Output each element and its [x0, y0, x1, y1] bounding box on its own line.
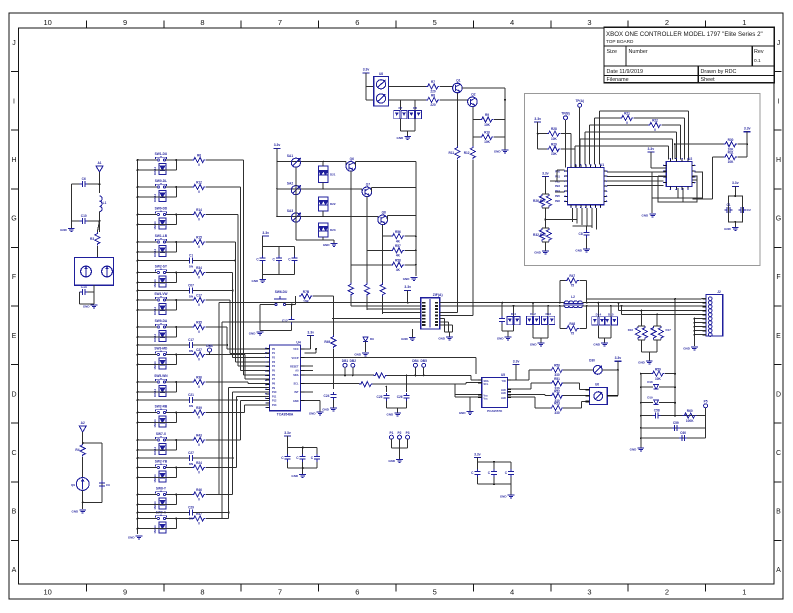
svg-text:3.3v: 3.3v [262, 231, 269, 235]
svg-text:C07: C07 [188, 283, 194, 287]
svg-text:SW2-SY: SW2-SY [155, 265, 168, 269]
svg-text:GND: GND [724, 227, 732, 231]
svg-text:GND: GND [354, 353, 362, 357]
svg-text:J: J [12, 40, 16, 47]
svg-text:75: 75 [571, 332, 575, 336]
svg-text:B: B [12, 509, 17, 516]
svg-text:C6: C6 [82, 177, 86, 181]
svg-text:R60: R60 [687, 409, 693, 413]
svg-text:DB3: DB3 [206, 344, 213, 348]
svg-text:DN: DN [189, 462, 193, 466]
svg-text:A2: A2 [81, 421, 85, 425]
svg-text:GND: GND [401, 337, 409, 341]
svg-text:GND: GND [459, 411, 467, 415]
svg-text:GND: GND [83, 305, 91, 309]
svg-text:Rev: Rev [754, 49, 764, 55]
svg-text:U5: U5 [501, 373, 505, 377]
svg-text:R34: R34 [196, 266, 202, 270]
svg-text:0: 0 [198, 416, 200, 420]
svg-text:1: 1 [742, 18, 746, 27]
svg-text:SDA: SDA [293, 374, 298, 377]
svg-text:R30: R30 [728, 138, 734, 142]
svg-text:SW0-DD: SW0-DD [155, 207, 168, 211]
svg-text:P2: P2 [398, 431, 402, 435]
svg-text:R35: R35 [196, 321, 202, 325]
svg-text:GND: GND [494, 150, 502, 154]
svg-text:8: 8 [200, 18, 204, 27]
svg-text:DB4: DB4 [412, 359, 419, 363]
svg-text:F: F [12, 274, 16, 281]
svg-text:0: 0 [198, 245, 200, 249]
svg-text:4K: 4K [396, 268, 401, 272]
svg-text:3.3v: 3.3v [284, 431, 291, 435]
svg-text:C25: C25 [377, 395, 383, 399]
svg-text:100K: 100K [686, 419, 694, 423]
svg-text:1N914: 1N914 [153, 193, 157, 202]
svg-text:E: E [12, 333, 17, 340]
svg-text:4K: 4K [396, 254, 401, 258]
svg-text:3: 3 [587, 18, 591, 27]
svg-text:7: 7 [278, 588, 282, 597]
svg-text:R36: R36 [196, 376, 202, 380]
svg-text:LED: LED [501, 392, 506, 395]
svg-text:C1: C1 [189, 253, 193, 257]
svg-text:GND: GND [534, 251, 542, 255]
svg-text:R8: R8 [431, 93, 435, 97]
svg-text:SA2: SA2 [287, 181, 293, 185]
svg-text:INT: INT [294, 391, 299, 394]
svg-text:R43: R43 [196, 434, 202, 438]
svg-text:C59: C59 [673, 421, 679, 425]
svg-text:SW2-YB: SW2-YB [155, 460, 168, 464]
svg-text:D13: D13 [545, 312, 551, 316]
svg-text:Drawn by RDC: Drawn by RDC [701, 69, 737, 75]
svg-text:GND: GND [128, 536, 136, 540]
svg-text:R59: R59 [655, 367, 661, 371]
svg-text:SW8-Y: SW8-Y [156, 487, 167, 491]
svg-text:R7: R7 [431, 80, 435, 84]
svg-text:PB6: PB6 [555, 199, 561, 203]
svg-text:SW6-DU: SW6-DU [275, 290, 288, 294]
svg-text:1N914: 1N914 [153, 333, 157, 342]
svg-text:C60: C60 [680, 431, 686, 435]
svg-text:0: 0 [198, 163, 200, 167]
svg-text:R46: R46 [196, 488, 202, 492]
svg-text:1N914: 1N914 [153, 525, 157, 534]
svg-text:D30: D30 [589, 359, 595, 363]
svg-text:P1: P1 [389, 431, 393, 435]
svg-text:P12: P12 [272, 400, 277, 403]
svg-text:1N914: 1N914 [153, 419, 157, 428]
svg-text:ZIF(A): ZIF(A) [433, 293, 443, 297]
svg-text:LED: LED [501, 397, 506, 400]
svg-text:3.3v: 3.3v [542, 171, 549, 175]
svg-text:DN: DN [189, 265, 193, 269]
svg-text:TCA9548A: TCA9548A [277, 413, 294, 417]
svg-text:GND: GND [530, 343, 538, 347]
svg-text:R12: R12 [464, 151, 470, 155]
svg-text:Filename: Filename [607, 77, 629, 83]
svg-text:C: C [11, 450, 16, 457]
svg-text:D8: D8 [413, 106, 417, 110]
svg-text:H: H [776, 157, 781, 164]
svg-text:U4: U4 [296, 341, 300, 345]
svg-text:D15: D15 [608, 312, 614, 316]
svg-text:D22: D22 [330, 202, 336, 206]
svg-text:SCL: SCL [484, 383, 489, 386]
svg-text:10: 10 [44, 18, 52, 27]
svg-text:E: E [776, 333, 781, 340]
svg-text:TP(A): TP(A) [575, 99, 584, 103]
svg-text:GND: GND [387, 413, 395, 417]
svg-text:A1: A1 [97, 161, 101, 165]
svg-text:PB3: PB3 [555, 184, 561, 188]
svg-text:1N914: 1N914 [153, 446, 157, 455]
svg-text:C21: C21 [188, 393, 194, 397]
svg-text:PB1: PB1 [555, 174, 561, 178]
svg-text:Q6: Q6 [350, 157, 354, 161]
svg-text:SCL: SCL [294, 383, 299, 386]
svg-text:SW4-VW: SW4-VW [154, 292, 167, 296]
svg-text:J2: J2 [717, 290, 721, 294]
svg-text:C2: C2 [747, 208, 751, 212]
svg-text:GND: GND [438, 336, 446, 340]
svg-text:C26: C26 [397, 395, 403, 399]
svg-text:1N914: 1N914 [153, 388, 157, 397]
svg-text:1: 1 [742, 588, 746, 597]
svg-text:R15: R15 [196, 236, 202, 240]
svg-text:C58: C58 [654, 409, 660, 413]
svg-text:A: A [776, 567, 781, 574]
svg-text:C17: C17 [188, 338, 194, 342]
svg-text:6: 6 [355, 18, 359, 27]
svg-text:A: A [12, 567, 17, 574]
svg-text:R4: R4 [75, 448, 79, 452]
svg-text:B: B [776, 509, 781, 516]
svg-text:DB2: DB2 [350, 359, 357, 363]
svg-text:R32: R32 [533, 233, 539, 237]
svg-text:D7: D7 [398, 106, 402, 110]
svg-text:R57: R57 [395, 244, 401, 248]
svg-text:R9: R9 [485, 113, 489, 117]
svg-text:SW3-MD: SW3-MD [154, 347, 168, 351]
svg-text:1N914: 1N914 [153, 221, 157, 230]
svg-text:GND: GND [630, 448, 638, 452]
svg-text:D: D [776, 391, 781, 398]
svg-text:7: 7 [278, 18, 282, 27]
svg-text:GND: GND [322, 408, 330, 412]
svg-text:D18: D18 [647, 380, 653, 384]
svg-text:9: 9 [123, 588, 127, 597]
svg-text:I: I [13, 98, 15, 105]
svg-text:DB5: DB5 [421, 359, 428, 363]
svg-text:DN: DN [189, 517, 193, 521]
svg-text:D16: D16 [628, 328, 634, 332]
svg-text:P3: P3 [406, 431, 410, 435]
svg-text:330: 330 [554, 411, 560, 415]
svg-text:SW2-RB: SW2-RB [155, 405, 168, 409]
svg-text:D12: D12 [530, 312, 536, 316]
svg-text:0: 0 [198, 358, 200, 362]
svg-text:I: I [778, 98, 780, 105]
svg-text:SA1: SA1 [287, 154, 293, 158]
svg-text:3.3v: 3.3v [647, 147, 654, 151]
svg-text:D21: D21 [330, 172, 336, 176]
svg-text:C: C [776, 450, 781, 457]
svg-text:TP(B): TP(B) [561, 112, 570, 116]
svg-text:C9: C9 [106, 483, 110, 487]
svg-text:R14: R14 [196, 208, 202, 212]
svg-text:0: 0 [198, 190, 200, 194]
svg-text:Q7: Q7 [366, 183, 370, 187]
svg-text:R11: R11 [449, 151, 455, 155]
svg-text:XBOX ONE CONTROLLER MODEL 1797: XBOX ONE CONTROLLER MODEL 1797 "Elite Se… [606, 31, 763, 38]
svg-text:GND: GND [309, 412, 317, 416]
svg-text:GND: GND [638, 361, 646, 365]
svg-text:R24: R24 [196, 461, 202, 465]
svg-text:R27: R27 [540, 199, 546, 203]
svg-text:SW9-DA: SW9-DA [155, 319, 168, 323]
svg-text:C14: C14 [81, 285, 87, 289]
svg-text:10K: 10K [655, 377, 662, 381]
svg-text:R33: R33 [540, 233, 546, 237]
svg-text:C1: C1 [726, 203, 730, 207]
svg-text:8: 8 [200, 588, 204, 597]
svg-text:GND: GND [72, 510, 80, 514]
svg-text:P10: P10 [272, 391, 277, 394]
svg-text:R52: R52 [554, 389, 560, 393]
svg-text:J: J [777, 40, 781, 47]
svg-text:R56: R56 [395, 230, 401, 234]
svg-text:1N914: 1N914 [153, 361, 157, 370]
svg-text:10K: 10K [728, 160, 735, 164]
svg-text:GND: GND [683, 347, 691, 351]
svg-text:D19: D19 [647, 396, 653, 400]
svg-text:GND: GND [249, 332, 257, 336]
svg-text:10K: 10K [484, 140, 491, 144]
svg-text:Number: Number [629, 49, 648, 55]
svg-text:3.3v: 3.3v [732, 181, 739, 185]
svg-text:DN: DN [189, 295, 193, 299]
svg-text:Sheet: Sheet [701, 77, 716, 83]
svg-text:SW1-DU: SW1-DU [155, 152, 168, 156]
svg-text:GND: GND [388, 459, 396, 463]
svg-text:0: 0 [198, 330, 200, 334]
svg-text:2: 2 [665, 18, 669, 27]
svg-text:Q1: Q1 [456, 79, 460, 83]
svg-text:GND: GND [497, 337, 505, 341]
svg-text:SW0-DL: SW0-DL [155, 179, 167, 183]
svg-text:5: 5 [433, 588, 437, 597]
svg-text:P11: P11 [272, 395, 277, 398]
svg-text:3.3v: 3.3v [744, 127, 751, 131]
svg-text:0.1: 0.1 [754, 58, 761, 64]
svg-text:TOP BOARD: TOP BOARD [606, 39, 634, 44]
svg-text:3.3v: 3.3v [307, 330, 314, 334]
svg-text:4: 4 [510, 588, 514, 597]
svg-text:C17: C17 [196, 294, 202, 298]
svg-text:0: 0 [198, 218, 200, 222]
svg-text:PCA9557K: PCA9557K [487, 409, 503, 413]
svg-text:3.3v: 3.3v [534, 117, 541, 121]
svg-text:U1: U1 [600, 163, 604, 167]
svg-text:3.3v: 3.3v [615, 356, 622, 360]
svg-text:0: 0 [198, 303, 200, 307]
svg-text:GND: GND [642, 214, 650, 218]
svg-text:GND: GND [60, 228, 68, 232]
svg-text:1N914: 1N914 [153, 166, 157, 175]
svg-text:R51: R51 [554, 377, 560, 381]
svg-text:VCCP: VCCP [292, 357, 299, 360]
svg-text:GND: GND [252, 279, 260, 283]
svg-text:F: F [776, 274, 780, 281]
svg-text:6: 6 [355, 588, 359, 597]
svg-text:0: 0 [654, 128, 656, 132]
svg-text:DN: DN [189, 349, 193, 353]
svg-text:Q8: Q8 [382, 211, 386, 215]
svg-text:GND: GND [291, 474, 299, 478]
svg-text:D17: D17 [666, 328, 672, 332]
svg-text:L2: L2 [571, 295, 575, 299]
svg-text:U8: U8 [379, 72, 383, 76]
svg-text:3.3v: 3.3v [474, 452, 481, 456]
svg-text:1N914: 1N914 [153, 306, 157, 315]
svg-text:Y00: Y00 [502, 380, 507, 383]
svg-text:R6: R6 [197, 154, 201, 158]
svg-text:L1: L1 [103, 201, 107, 205]
svg-text:PB5: PB5 [555, 194, 561, 198]
svg-text:SA3: SA3 [287, 209, 293, 213]
svg-text:1N914: 1N914 [153, 279, 157, 288]
svg-text:0: 0 [198, 276, 200, 280]
svg-text:4: 4 [510, 18, 514, 27]
svg-text:10K: 10K [484, 123, 491, 127]
svg-text:220: 220 [430, 103, 436, 107]
svg-text:P5: P5 [704, 400, 708, 404]
svg-text:R39: R39 [196, 406, 202, 410]
svg-text:R58: R58 [395, 258, 401, 262]
svg-text:H: H [11, 157, 16, 164]
svg-text:R49: R49 [324, 340, 330, 344]
svg-text:Q2: Q2 [471, 93, 475, 97]
svg-text:0: 0 [198, 385, 200, 389]
svg-text:D14: D14 [596, 312, 602, 316]
svg-text:GND: GND [397, 136, 405, 140]
svg-text:D23: D23 [330, 228, 336, 232]
svg-text:Vcc: Vcc [484, 397, 489, 400]
svg-text:10K: 10K [551, 137, 558, 141]
svg-text:3.3v: 3.3v [274, 143, 281, 147]
svg-text:G: G [11, 216, 16, 223]
svg-text:VCC: VCC [293, 348, 298, 351]
svg-text:DN: DN [189, 404, 193, 408]
svg-text:R31: R31 [728, 151, 734, 155]
svg-text:75: 75 [571, 284, 575, 288]
svg-text:R53: R53 [554, 402, 560, 406]
svg-text:1N914: 1N914 [153, 474, 157, 483]
svg-text:D: D [11, 391, 16, 398]
svg-text:R21: R21 [624, 112, 630, 116]
svg-text:C24: C24 [324, 394, 330, 398]
svg-text:Size: Size [607, 49, 618, 55]
svg-text:C27: C27 [196, 348, 202, 352]
svg-text:SW1-LB: SW1-LB [155, 234, 168, 238]
svg-text:R7B: R7B [303, 290, 310, 294]
svg-text:9: 9 [123, 18, 127, 27]
svg-text:Date 11/9/2019: Date 11/9/2019 [607, 69, 643, 75]
svg-text:R50: R50 [554, 364, 560, 368]
svg-text:G: G [776, 216, 781, 223]
svg-text:0: 0 [198, 522, 200, 526]
svg-text:GND: GND [593, 343, 601, 347]
svg-text:10: 10 [44, 588, 52, 597]
svg-text:GND: GND [323, 243, 331, 247]
svg-text:2: 2 [665, 588, 669, 597]
svg-text:5: 5 [433, 18, 437, 27]
svg-text:R12: R12 [196, 181, 202, 185]
svg-text:R3: R3 [90, 237, 94, 241]
svg-text:R48: R48 [569, 322, 575, 326]
svg-text:C27: C27 [188, 451, 194, 455]
svg-text:GND: GND [293, 400, 299, 403]
svg-text:0: 0 [198, 471, 200, 475]
svg-text:0: 0 [198, 498, 200, 502]
svg-text:R29: R29 [551, 143, 557, 147]
svg-text:R22: R22 [652, 119, 658, 123]
svg-text:1N914: 1N914 [153, 248, 157, 257]
svg-text:GND: GND [403, 277, 411, 281]
svg-text:SW5-WN: SW5-WN [154, 374, 168, 378]
svg-text:Q9: Q9 [71, 483, 75, 487]
svg-text:C29: C29 [188, 505, 194, 509]
svg-text:U6: U6 [595, 383, 599, 387]
svg-text:1N914: 1N914 [153, 501, 157, 510]
svg-text:C10: C10 [81, 214, 87, 218]
svg-text:P13: P13 [272, 404, 277, 407]
svg-text:DB1: DB1 [342, 359, 349, 363]
svg-text:D9: D9 [370, 337, 374, 341]
svg-text:3.3v: 3.3v [363, 68, 370, 72]
svg-text:10K: 10K [551, 152, 558, 156]
svg-text:GND: GND [500, 495, 508, 499]
svg-text:R26: R26 [533, 199, 539, 203]
svg-text:R28: R28 [551, 127, 557, 131]
svg-text:0: 0 [626, 121, 628, 125]
svg-text:D11: D11 [511, 312, 517, 316]
svg-text:R10: R10 [484, 131, 490, 135]
svg-text:C8: C8 [579, 232, 583, 236]
svg-text:3: 3 [587, 588, 591, 597]
svg-text:SW7-X: SW7-X [156, 432, 167, 436]
svg-text:3.3v: 3.3v [513, 359, 520, 363]
svg-text:U2: U2 [688, 157, 692, 161]
svg-text:3.3v: 3.3v [404, 285, 411, 289]
svg-text:0: 0 [198, 443, 200, 447]
svg-text:RESET: RESET [290, 365, 299, 368]
svg-text:GND: GND [575, 249, 583, 253]
svg-text:R47: R47 [569, 274, 575, 278]
svg-text:4K: 4K [396, 239, 401, 243]
